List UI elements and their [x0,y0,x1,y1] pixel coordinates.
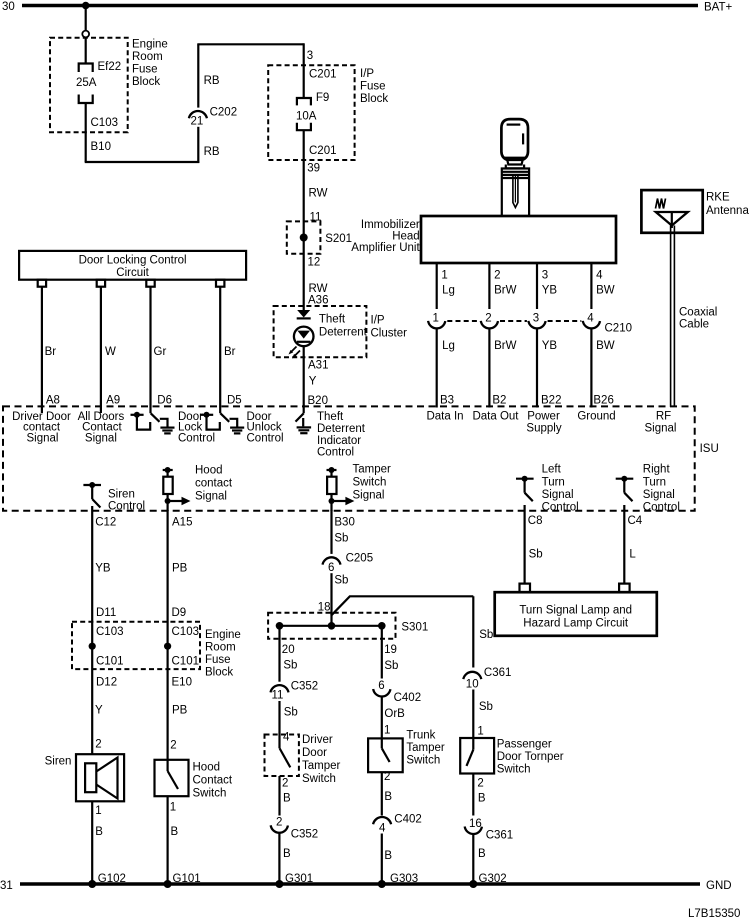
trunk tamper switch [368,730,445,773]
svg-text:3: 3 [542,270,548,282]
svg-text:C8: C8 [528,515,543,527]
svg-text:1: 1 [477,726,483,738]
svg-text:Sb: Sb [529,549,543,561]
wire circle to fuse Ef22 [85,37,87,63]
svg-text:Control: Control [178,432,215,444]
coaxial cable to RF signal [671,226,718,408]
svg-text:6: 6 [328,562,334,574]
wire C4 right turn [623,505,625,584]
svg-text:Siren: Siren [108,489,135,501]
hood contact switch [155,760,233,800]
svg-text:Right: Right [643,464,671,476]
svg-text:D11: D11 [96,607,116,619]
svg-text:B3: B3 [440,395,454,407]
svg-text:D5: D5 [227,395,242,407]
svg-text:E10: E10 [172,677,192,689]
svg-text:C352: C352 [291,681,319,693]
wire Br D5 [219,287,221,414]
svg-text:Trunk: Trunk [406,730,435,742]
svg-text:Coaxial: Coaxial [679,307,717,319]
label RF Signal [645,411,677,435]
svg-text:2: 2 [282,778,288,790]
svg-text:Fuse: Fuse [132,64,158,76]
svg-text:Sb: Sb [334,533,348,545]
svg-text:BAT+: BAT+ [704,2,733,14]
label Theft Deterrent Indicator Control [317,411,366,459]
svg-text:Control: Control [317,447,354,459]
ground G302 [469,873,506,888]
svg-text:C101: C101 [96,656,124,668]
wire Lg to B3 [436,328,438,408]
svg-text:Br: Br [45,346,57,358]
svg-text:4: 4 [379,823,386,835]
svg-text:D6: D6 [157,395,172,407]
svg-text:Room: Room [205,642,236,654]
svg-text:B: B [478,848,486,860]
svg-text:RW: RW [309,188,328,200]
svg-text:Immobilizer: Immobilizer [361,219,420,231]
svg-text:PB: PB [172,563,188,575]
svg-text:I/P: I/P [371,315,385,327]
svg-text:Sb: Sb [479,701,493,713]
wire C352 to tamper switch [278,701,280,735]
svg-text:B: B [95,826,103,838]
svg-text:Signal: Signal [195,491,227,503]
svg-text:B22: B22 [541,395,561,407]
svg-text:12: 12 [308,257,321,269]
svg-text:Gr: Gr [154,346,167,358]
svg-text:Switch: Switch [497,764,531,776]
svg-text:C361: C361 [484,667,512,679]
svg-text:Driver: Driver [302,734,333,746]
wire down into I/P fuse block [303,43,305,98]
svg-text:Control: Control [643,502,680,514]
svg-text:Control: Control [542,502,579,514]
svg-text:Indicator: Indicator [317,435,361,447]
wire fuse to corner [85,103,87,162]
svg-text:Engine: Engine [132,39,168,51]
svg-text:B20: B20 [308,395,328,407]
svg-text:B: B [478,793,486,805]
svg-text:Switch: Switch [302,773,336,785]
svg-text:C402: C402 [394,692,422,704]
wire trunk column [381,626,383,679]
svg-text:YB: YB [542,285,558,297]
diode arrow into LED [297,310,311,318]
bus 30 BAT+ [2,1,733,14]
svg-text:B26: B26 [593,395,613,407]
svg-text:4: 4 [587,313,594,325]
svg-text:2: 2 [384,771,390,783]
label Door Unlock Control [247,411,284,444]
C210 dashed link 3-4 [548,320,582,322]
svg-text:BrW: BrW [494,340,516,352]
svg-text:S201: S201 [325,233,352,245]
ground G303 [378,873,418,888]
svg-text:D9: D9 [172,607,187,619]
svg-text:OrB: OrB [384,708,405,720]
connector C210 cavity 1 [428,313,445,329]
svg-text:BW: BW [596,340,615,352]
svg-text:Ef22: Ef22 [98,61,122,73]
I/P Fuse Block dashed box [268,65,388,160]
Turn Signal Lamp and Hazard Lamp Circuit box [495,592,657,636]
wire C202 up [197,44,199,107]
wire W A9 [100,287,102,413]
fuse Ef22 25A [76,61,121,103]
wire pin1 Lg [436,263,438,309]
svg-text:Signal: Signal [645,423,677,435]
svg-text:2: 2 [494,270,500,282]
svg-text:Fuse: Fuse [360,81,386,93]
svg-text:1: 1 [170,802,176,814]
connector C202 pin 21 [189,107,237,128]
pin square D6 [146,280,154,287]
wire C8 left turn [523,505,525,584]
svg-text:Door Tornper: Door Tornper [497,751,564,763]
svg-text:GND: GND [706,880,732,892]
svg-text:B: B [384,850,392,862]
svg-text:Cluster: Cluster [371,328,408,340]
svg-text:Cable: Cable [679,319,709,331]
svg-text:Br: Br [224,346,236,358]
C210 dashed link 2-3 [500,320,527,322]
pin square turn box left [520,584,531,593]
svg-text:C402: C402 [394,814,422,826]
svg-text:2: 2 [95,739,101,751]
svg-text:1: 1 [441,270,447,282]
splice dot siren fuse block [89,643,96,650]
label Door Lock Control [178,411,215,444]
wire Gr D6 [149,287,151,414]
connector C352 pin 11 [271,681,319,702]
wire LED to B20 ground [303,346,305,413]
svg-text:Power: Power [527,411,560,423]
wire pin4 BW [590,263,592,309]
svg-text:F9: F9 [316,92,329,104]
svg-text:RF: RF [656,411,671,423]
driver door tamper switch [265,734,341,785]
svg-text:RB: RB [204,146,220,158]
svg-text:Data Out: Data Out [472,411,519,423]
wire pin2 BrW [488,263,490,309]
svg-text:Signal: Signal [643,489,675,501]
svg-text:L: L [629,549,636,561]
svg-text:B: B [283,848,291,860]
svg-text:A9: A9 [106,395,120,407]
svg-text:YB: YB [95,563,111,575]
svg-text:L7B15350: L7B15350 [688,908,740,920]
wire passenger down from branch [472,596,474,667]
ground B20 [297,418,312,433]
C210 dashed link 1-2 [447,320,479,322]
connector C361 pin 16 [465,818,514,842]
junction on bus 30 [82,2,90,10]
connector C402 pin 6 [373,680,421,704]
LED light arrows [290,347,297,354]
Door Locking Control Circuit box [19,251,246,280]
svg-text:C202: C202 [210,107,238,119]
wire A15 hood column [167,510,169,760]
wire to G302 [472,834,474,884]
wire driver tamper to C352 [278,776,280,816]
label Driver Door contact Signal [12,411,71,444]
wire diagonal to passenger branch [332,596,474,615]
svg-text:Supply: Supply [526,423,561,435]
svg-text:Hood: Hood [195,465,223,477]
svg-text:A36: A36 [308,295,328,307]
svg-text:Head: Head [392,231,420,243]
wire YB to B22 [536,328,538,408]
svg-text:Signal: Signal [542,489,574,501]
svg-text:Lg: Lg [442,285,455,297]
svg-text:RKE: RKE [706,192,730,204]
connector C402 pin 4 [373,814,422,835]
svg-text:Sb: Sb [384,660,398,672]
svg-text:C201: C201 [309,69,337,81]
RKE Antenna box [641,190,749,233]
wire driver door tamper column [278,626,280,682]
wire bus30 to fuse block [85,6,87,31]
svg-text:Circuit: Circuit [116,267,149,279]
Immobilizer Head Amplifier Unit box U1 [351,216,616,263]
wire horizontal top run to I/P fuse block [197,43,303,45]
hood contact pull-up resistor [163,465,233,512]
svg-text:Tamper: Tamper [406,742,445,754]
pin square A8 [38,280,46,287]
splice dot hood fuse block [164,643,171,650]
svg-text:Lg: Lg [442,340,455,352]
wire BW to B26 [590,328,592,408]
svg-text:1: 1 [384,725,390,737]
svg-text:2: 2 [485,313,491,325]
svg-text:W: W [105,346,116,358]
svg-text:Sb: Sb [284,707,298,719]
svg-text:BrW: BrW [494,285,516,297]
wire passenger switch to C361 [472,774,474,816]
svg-text:Switch: Switch [193,788,227,800]
svg-text:1: 1 [95,805,101,817]
svg-text:RW: RW [309,283,328,295]
wire C12 siren column [91,506,93,754]
svg-text:21: 21 [191,116,204,128]
svg-text:Control: Control [247,432,284,444]
connector C361 pin 10 [463,667,511,691]
wire F9 down to S201 [303,130,305,310]
svg-text:19: 19 [384,644,397,656]
svg-text:11: 11 [272,690,284,702]
svg-text:10: 10 [466,679,479,691]
svg-text:C201: C201 [309,145,337,157]
wire hood switch to G101 [167,796,169,884]
passenger door tamper switch [460,738,564,776]
ground door lock [160,428,174,434]
svg-text:Ground: Ground [577,411,615,423]
wire B30 tamper column [330,510,332,554]
svg-text:Signal: Signal [27,432,59,444]
svg-text:Hazard Lamp Circuit: Hazard Lamp Circuit [523,618,629,630]
svg-text:Deterrent: Deterrent [317,423,366,435]
svg-text:Theft: Theft [319,314,346,326]
svg-text:Block: Block [132,76,160,88]
svg-text:Antenna: Antenna [706,205,749,217]
ignition lock cylinder [502,169,529,217]
wire RB up to C202 [197,127,199,163]
svg-text:Door Locking Control: Door Locking Control [79,255,187,267]
svg-text:I/P: I/P [360,68,374,80]
svg-text:25A: 25A [76,77,97,89]
svg-text:3: 3 [533,313,539,325]
theft deterrent indicator control switch B20 [296,413,304,421]
connector terminal circle [82,31,89,38]
tamper switch pull-up resistor [327,464,392,512]
wire to G303 [381,834,383,885]
svg-text:A15: A15 [172,517,192,529]
svg-text:B: B [171,826,179,838]
svg-text:C103: C103 [91,117,119,129]
svg-text:C103: C103 [172,626,200,638]
svg-text:Door: Door [302,747,327,759]
svg-text:Y: Y [309,376,317,388]
splice S201 [287,221,352,253]
svg-text:Amplifier Unit: Amplifier Unit [351,242,420,254]
svg-text:RB: RB [204,75,220,87]
connector C210 cavity 2 [481,313,498,329]
svg-text:4: 4 [596,270,603,282]
wire siren to G102 [91,801,93,884]
svg-text:Sb: Sb [283,660,297,672]
svg-text:16: 16 [469,818,482,830]
wire trunk switch to C402 [381,772,383,815]
svg-text:S301: S301 [401,622,428,634]
svg-text:Signal: Signal [353,490,385,502]
wire BrW to B2 [488,328,490,408]
svg-text:C210: C210 [605,323,633,335]
wire horizontal B10 run [85,161,200,163]
I/P Cluster dashed box [274,306,407,357]
svg-text:A8: A8 [46,395,60,407]
svg-text:Fuse: Fuse [205,654,231,666]
pin square turn box right [619,584,630,593]
fuse F9 10A [296,92,329,130]
svg-text:6: 6 [378,680,384,692]
svg-text:C4: C4 [628,515,643,527]
label All Doors Contact Signal [78,411,125,444]
svg-text:PB: PB [172,705,188,717]
svg-text:3: 3 [307,50,313,62]
ground G102 [88,873,126,888]
right turn signal control switch [616,464,680,514]
siren control switch [83,482,145,513]
svg-text:Hood: Hood [193,762,221,774]
svg-text:Turn Signal Lamp and: Turn Signal Lamp and [519,605,632,617]
svg-text:Switch: Switch [406,755,440,767]
svg-text:B2: B2 [492,395,506,407]
connector C210 cavity 3 [528,313,545,329]
siren [45,754,125,801]
pin square D5 [216,280,224,287]
wire C402 to trunk switch [381,696,383,738]
LED theft deterrent indicator [289,314,368,359]
svg-text:B: B [384,791,392,803]
label Power Supply [526,411,561,435]
svg-text:A31: A31 [308,360,328,372]
door lock control switch contact D6 [131,412,168,430]
svg-text:D12: D12 [96,677,117,689]
svg-text:C12: C12 [95,517,116,529]
splice S301 [268,613,428,639]
svg-text:2: 2 [170,740,176,752]
svg-text:Deterrent: Deterrent [319,326,368,338]
connector C352 pin 2 [271,817,319,841]
svg-text:Tamper: Tamper [302,760,341,772]
bus 31 GND [0,880,732,892]
svg-text:2: 2 [276,817,282,829]
svg-text:10A: 10A [296,111,317,123]
door unlock control switch contact D5 [200,412,237,430]
left turn signal control switch [516,464,579,514]
svg-text:30: 30 [2,1,15,13]
ground G301 [275,873,313,888]
svg-text:Tamper: Tamper [353,464,392,476]
svg-text:Switch: Switch [353,477,387,489]
svg-text:4: 4 [283,732,290,744]
svg-text:Turn: Turn [643,476,666,488]
ignition key symbol [501,119,528,168]
svg-text:contact: contact [195,478,233,490]
svg-text:Turn: Turn [542,476,565,488]
wire to G301 [278,832,280,884]
wire C361 to passenger switch [472,690,474,739]
svg-text:39: 39 [307,163,320,175]
ground door unlock [230,428,244,434]
svg-text:C103: C103 [96,626,124,638]
ISU dashed box [3,406,719,510]
svg-text:20: 20 [282,644,295,656]
svg-text:Theft: Theft [317,411,344,423]
svg-text:Contact: Contact [193,775,233,787]
svg-text:Sb: Sb [479,629,493,641]
Engine Room Fuse Block (lower) dashed box [72,622,241,679]
connector C210 cavity 4 [583,313,600,329]
svg-text:Passenger: Passenger [497,739,552,751]
svg-text:BW: BW [596,285,615,297]
svg-text:Block: Block [360,93,388,105]
svg-text:B10: B10 [91,141,111,153]
pin square A9 [97,280,105,287]
svg-text:B30: B30 [334,517,354,529]
svg-text:Block: Block [205,667,233,679]
svg-text:ISU: ISU [700,443,719,455]
svg-text:Signal: Signal [85,432,117,444]
svg-text:C352: C352 [291,829,319,841]
svg-text:Control: Control [108,501,145,513]
wire Br A8 [41,287,43,413]
svg-text:C361: C361 [486,830,514,842]
svg-text:Left: Left [542,464,562,476]
svg-text:C101: C101 [172,656,200,668]
svg-text:Siren: Siren [45,756,72,768]
connector C205 pin 6 [323,553,374,574]
wire C205 to S301 [330,573,332,615]
svg-text:Sb: Sb [334,575,348,587]
svg-text:Data In: Data In [426,411,463,423]
Engine Room Fuse Block (upper) dashed box [50,38,168,133]
svg-text:C205: C205 [346,553,374,565]
svg-text:Room: Room [132,51,163,63]
svg-text:Y: Y [95,705,103,717]
svg-text:Engine: Engine [205,629,241,641]
